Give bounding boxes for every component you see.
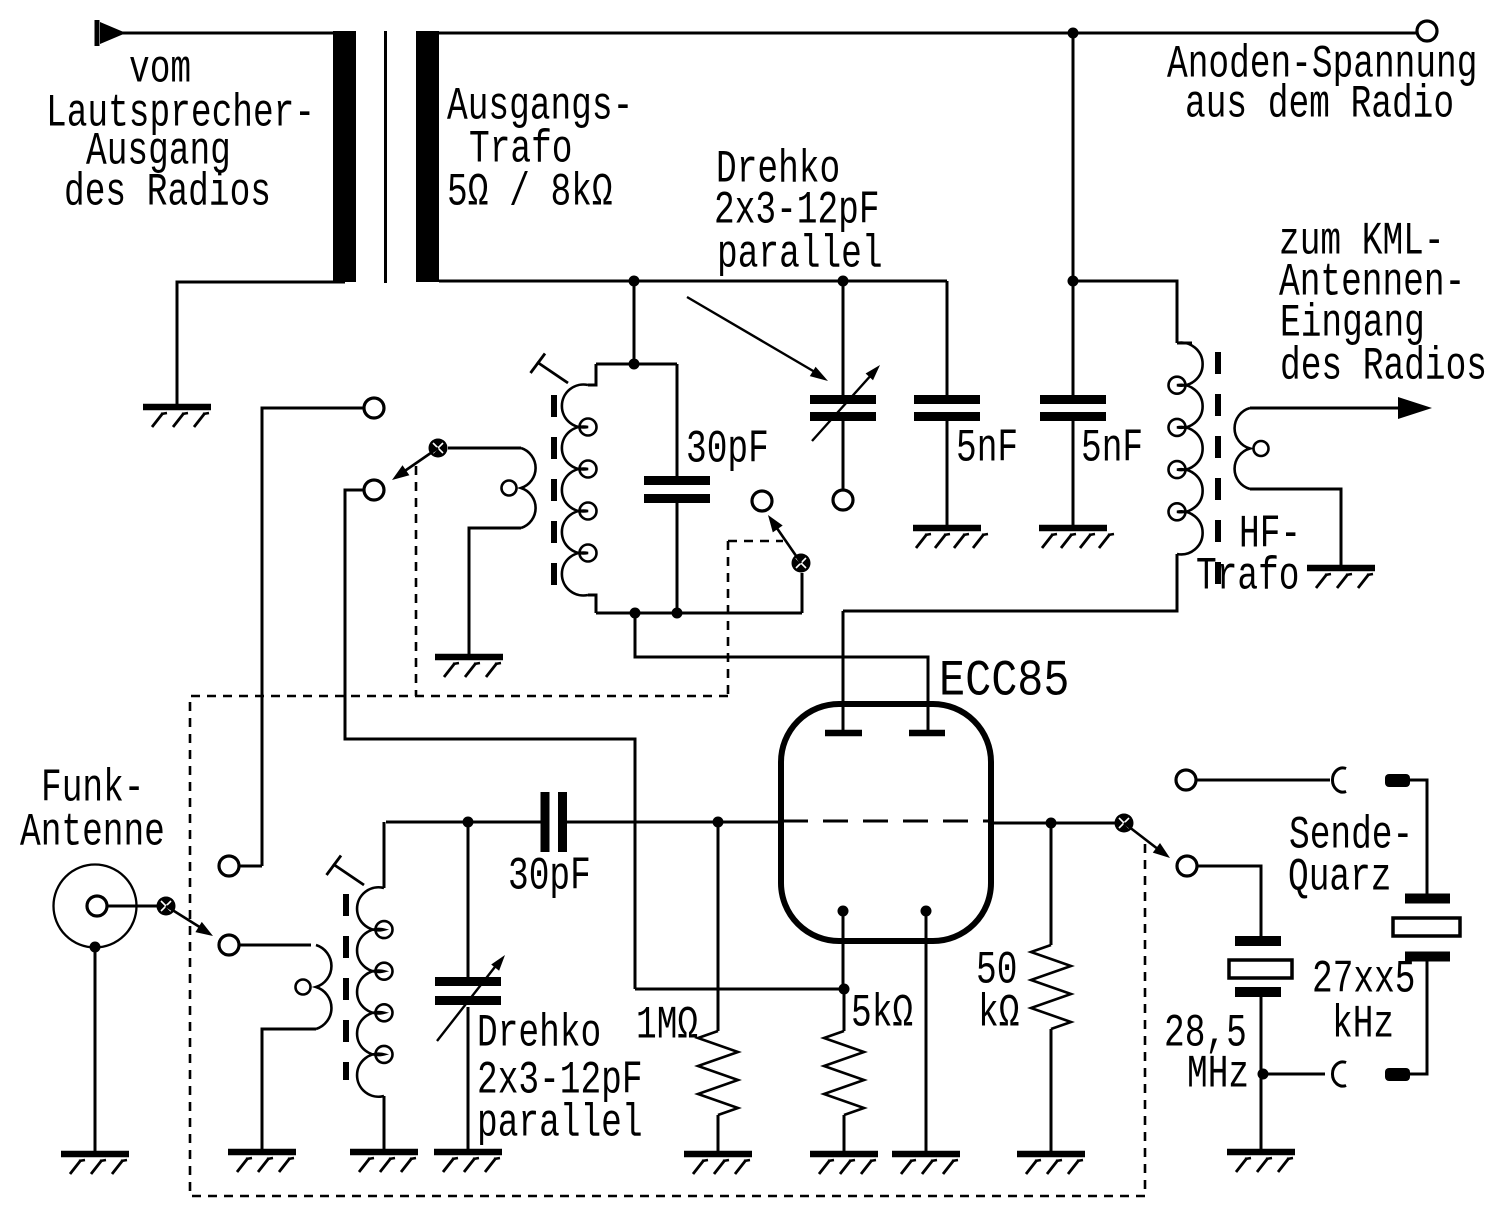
wire Drehko top — [842, 281, 845, 395]
junction crystal node — [1258, 1069, 1269, 1080]
output transformer T1 primary bar — [333, 31, 356, 282]
label Drehko 2x3-12pF parallel (bottom) — [0, 0, 1, 1]
label vom Lautsprecher-Ausgang des Radios — [0, 0, 1, 1]
svg-text:1MΩ: 1MΩ — [636, 1000, 698, 1052]
label 1M — [0, 0, 1, 1]
resistor 5k zigzag — [824, 1031, 864, 1115]
capacitor 30pF (tank) — [644, 481, 710, 499]
capacitor 5nF #2 — [1040, 400, 1106, 417]
junction antenna ground — [90, 942, 101, 953]
input arrow (vom Lautsprecher) — [97, 20, 126, 46]
tap terminal (top) — [364, 398, 384, 418]
wire right grid to switch — [989, 822, 1124, 825]
junction osc bottom/30pF — [672, 608, 683, 619]
switch linkage (S1c osc) — [728, 541, 783, 696]
ground (right cathode) — [892, 1154, 960, 1174]
HF-Trafo primary entry nub — [1177, 342, 1192, 345]
switch linkage (S1b) — [415, 466, 418, 696]
anode bar (left triode) — [825, 730, 862, 737]
wire terminal to socket — [1196, 779, 1330, 782]
wire osc top node down — [633, 281, 636, 364]
svg-text:Quarz: Quarz — [1288, 852, 1391, 904]
wire throw to antenna coil — [240, 944, 311, 947]
triode ECC85 envelope — [781, 704, 991, 941]
wire antenna to switch — [107, 905, 157, 908]
antenna coil primary winding — [296, 945, 332, 1029]
trimmer core symbol (osc) — [531, 354, 569, 384]
wire HF secondary top to output arrow — [1250, 407, 1400, 410]
junction Drehko top — [838, 276, 849, 287]
label 30pF tank — [0, 0, 1, 1]
svg-text:des Radios: des Radios — [64, 167, 271, 219]
ground (5nF #2) — [1039, 528, 1114, 548]
label Sende-Quarz — [0, 0, 1, 1]
label 50k — [0, 0, 1, 1]
oscillator coil L1 (main winding) — [562, 385, 597, 596]
osc transformer core (dashed) — [551, 395, 557, 585]
antenna coil secondary winding — [357, 887, 392, 1096]
wire antenna secondary top — [383, 822, 386, 888]
switch S1c-osc lever — [768, 515, 801, 563]
wire HF primary bottom — [843, 554, 1177, 611]
antenna body circle — [54, 865, 137, 948]
svg-text:kHz: kHz — [1332, 999, 1394, 1051]
wire 50k bottom — [1050, 1029, 1053, 1152]
trimmer core symbol (antenna) — [327, 856, 365, 886]
antenna transformer core (dashed) — [343, 894, 349, 1080]
wire 30pF tank top — [676, 364, 679, 476]
osc coil exit nub — [588, 595, 596, 613]
svg-text:ECC85: ECC85 — [939, 654, 1069, 711]
wire antenna primary to ground — [262, 1029, 316, 1150]
resistor 1M zigzag — [698, 1031, 738, 1115]
junction osc tank top — [629, 276, 640, 287]
grid rail wire left — [386, 821, 541, 824]
terminal (quarz top) — [1176, 770, 1196, 790]
ground (50k) — [1017, 1154, 1085, 1174]
junction node B+/5nF2/HF — [1068, 276, 1079, 287]
resistor 50k zigzag — [1031, 945, 1071, 1029]
osc bottom rail — [596, 612, 802, 615]
label 5nF #2 — [0, 0, 1, 1]
ground (antenna primary) — [228, 1152, 296, 1172]
junction grid/1M — [713, 817, 724, 828]
svg-text:Trafo: Trafo — [1196, 551, 1299, 603]
anode supply terminal — [1417, 21, 1437, 41]
junction B+ rail / dropper — [1068, 28, 1079, 39]
label Drehko 2x3-12pF parallel (top) — [0, 0, 1, 1]
oscillator feedback winding — [502, 448, 536, 528]
ground (antenna secondary) — [350, 1152, 418, 1172]
ground (1M) — [684, 1154, 752, 1174]
wire 5nF1 bottom — [946, 421, 949, 526]
wire Drehko lower to ground — [467, 1007, 470, 1150]
wire 5nF2 top — [1072, 281, 1075, 395]
wire cathode rail — [635, 988, 844, 991]
svg-text:aus dem Radio: aus dem Radio — [1185, 79, 1454, 131]
switch S1a lever — [166, 906, 213, 936]
switch S1c-osc pole — [792, 554, 811, 573]
svg-text:5nF: 5nF — [956, 423, 1018, 475]
crystal pin (bottom) — [1385, 1068, 1410, 1081]
wire left grid — [718, 821, 783, 824]
switch S1b throw terminal — [364, 480, 384, 500]
secondary top rail wire — [439, 280, 947, 283]
switch S1b lever — [392, 448, 438, 480]
label Funk-Antenne — [0, 0, 1, 1]
HF-Trafo secondary winding — [1235, 408, 1269, 489]
label 27xx5 kHz — [0, 0, 1, 1]
HF-Trafo core (dashed) — [1215, 352, 1221, 585]
grid rail wire right — [567, 821, 718, 824]
label zum KML-Antennen-Eingang des Radios — [0, 0, 1, 1]
output arrow (zum KML) — [1398, 397, 1432, 419]
capacitor 5nF #1 — [914, 400, 980, 417]
wire 28.5MHz to ground — [1260, 997, 1263, 1150]
variable arrow (Drehko upper) — [812, 365, 880, 441]
switch S1a throw terminal — [219, 935, 239, 955]
wire node to HF-Trafo primary top — [1073, 281, 1177, 343]
HF-Trafo primary winding — [1169, 343, 1203, 555]
junction osc bottom/anode feed — [630, 608, 641, 619]
switch S1c-osc throw terminal — [752, 491, 772, 511]
wire left anode drop — [842, 611, 845, 732]
label 28.5 MHz — [0, 0, 1, 1]
variable capacitor Drehko upper section — [810, 400, 876, 417]
wire Drehko lower top — [467, 822, 470, 977]
antenna center terminal — [87, 896, 107, 916]
socket contact (top) — [1332, 768, 1346, 792]
crystal 28.5MHz bottom plate — [1235, 987, 1281, 997]
wire 5nF2 bottom — [1072, 421, 1075, 526]
svg-text:5Ω / 8kΩ: 5Ω / 8kΩ — [447, 167, 613, 219]
svg-text:parallel: parallel — [477, 1098, 643, 1150]
cathode pin right — [925, 911, 928, 1152]
variable arrow (Drehko lower) — [437, 955, 505, 1041]
crystal select terminal — [1177, 856, 1197, 876]
ground (HF secondary) — [1307, 568, 1375, 588]
ground (Drehko lower) — [434, 1152, 502, 1172]
ground (speaker input) — [143, 407, 211, 427]
switch S1a pole — [157, 897, 176, 916]
wire 30pF tank bottom — [676, 503, 679, 613]
anode pin left — [842, 657, 845, 730]
switch pole (osc feedback) — [0, 0, 1, 1]
svg-text:des Radios: des Radios — [1280, 341, 1487, 393]
junction grid/50k — [1046, 818, 1057, 829]
wire throw to cathode line — [345, 490, 635, 989]
Drehko upper stator terminal — [833, 490, 853, 510]
output transformer T1 core line — [384, 31, 387, 283]
wire antenna to ground — [94, 947, 97, 1152]
wire osc coil top rail — [596, 363, 677, 366]
wire 50k top — [1050, 823, 1053, 945]
wire 1M bottom — [717, 1115, 720, 1152]
ground (feedback winding) — [435, 657, 503, 677]
wire rail corner down to 5nF #1 — [946, 281, 949, 395]
switch S1b pole — [429, 439, 448, 458]
label ECC85 — [0, 0, 1, 1]
svg-text:5nF: 5nF — [1081, 423, 1143, 475]
wire 27xx5 bottom — [1410, 961, 1427, 1074]
svg-text:30pF: 30pF — [686, 424, 769, 476]
wire select terminal to 28.5MHz crystal — [1197, 866, 1261, 936]
wire primary bottom to ground — [177, 282, 345, 405]
ECC85 internal shield (dashed) — [783, 820, 989, 823]
label Ausgangs-Trafo 5R/8kR — [0, 0, 1, 1]
capacitor 30pF (coupling) — [545, 792, 563, 852]
junction osc coil top — [629, 359, 640, 370]
tap terminal (antenna coil) — [219, 856, 239, 876]
cathode dot (left) — [838, 906, 849, 917]
label Anoden-Spannung aus dem Radio — [0, 0, 1, 1]
crystal 28.5MHz top plate — [1235, 936, 1281, 946]
wire B+ down to node — [1072, 33, 1075, 281]
switch S1c pole — [1115, 814, 1134, 833]
svg-text:Drehko: Drehko — [477, 1008, 601, 1060]
ground (crystal) — [1227, 1152, 1295, 1172]
ground (antenna) — [61, 1154, 129, 1174]
cathode dot (right) — [921, 906, 932, 917]
svg-text:Antenne: Antenne — [20, 807, 165, 859]
socket contact (bottom) — [1332, 1062, 1346, 1086]
anode bar (right triode) — [909, 730, 945, 737]
label 5nF #1 — [0, 0, 1, 1]
cathode pin left — [842, 911, 845, 989]
ground (5nF #1) — [913, 528, 988, 548]
wire pole to osc bottom rail — [801, 573, 804, 613]
wire Drehko bottom stub — [842, 421, 845, 490]
crystal 27xx5 top plate — [1405, 894, 1450, 904]
output transformer T1 secondary bar — [416, 31, 439, 282]
junction cathode/5k — [839, 984, 850, 995]
ground (5k) — [810, 1154, 878, 1174]
ganged switch frame (dashed box) — [190, 696, 1145, 1196]
svg-text:parallel: parallel — [717, 229, 883, 281]
switch S1c lever — [1124, 823, 1170, 858]
resistor 1M wire top — [717, 822, 720, 1031]
wire socket to node — [1261, 1073, 1325, 1076]
wire tap terminal to antenna tap — [262, 408, 364, 856]
svg-text:MHz: MHz — [1187, 1049, 1249, 1101]
svg-text:kΩ: kΩ — [978, 988, 1019, 1040]
variable capacitor Drehko lower section — [435, 982, 501, 1001]
B+ rail wire — [439, 32, 1417, 35]
wire feedback coil bottom to ground — [469, 528, 521, 655]
crystal pin (top) — [1385, 774, 1410, 787]
wire cathode node — [843, 989, 846, 1031]
wire pin to 27xx5 crystal — [1410, 780, 1427, 894]
wire stub tap — [240, 856, 262, 866]
crystal 27xx5 body — [1393, 918, 1460, 936]
junction grid rail / Drehko lower — [463, 817, 474, 828]
svg-text:30pF: 30pF — [508, 851, 591, 903]
wire pole to feedback coil — [448, 447, 521, 450]
svg-text:5kΩ: 5kΩ — [851, 988, 913, 1040]
wire 5k bottom — [843, 1115, 846, 1152]
wire osc bottom to right anode — [635, 613, 928, 732]
label arrow Drehko — [687, 297, 828, 381]
crystal 27xx5 bottom plate — [1405, 952, 1450, 962]
wire input arrow to output transformer primary — [108, 32, 333, 35]
wire antenna secondary bottom — [383, 1096, 386, 1150]
crystal 28.5MHz body — [1229, 960, 1292, 978]
wire HF secondary bottom to ground — [1250, 489, 1341, 566]
label 30pF coupling — [0, 0, 1, 1]
anode pin right — [927, 657, 930, 730]
label HF-Trafo — [0, 0, 1, 1]
osc coil entry nub — [588, 364, 596, 385]
label 5k — [0, 0, 1, 1]
